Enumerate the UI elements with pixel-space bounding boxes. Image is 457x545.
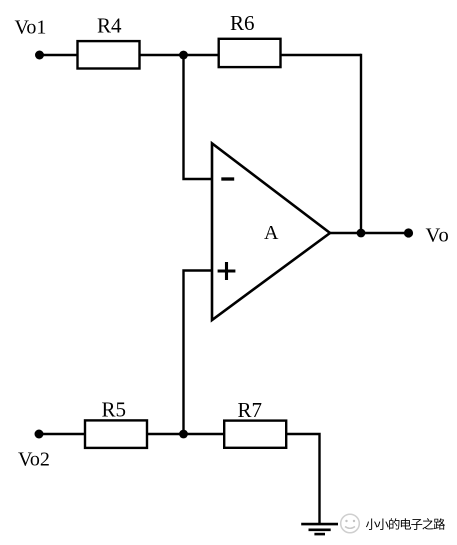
resistor R6 (219, 39, 281, 67)
wire non-inverting input stub (184, 271, 213, 435)
svg-text:Vo: Vo (426, 225, 450, 247)
resistor R5 (85, 420, 147, 448)
wire Vo1 to R4 (40, 54, 78, 56)
node Vo1 terminal (35, 51, 44, 60)
op-amp minus pin mark (221, 177, 234, 180)
svg-text:R4: R4 (97, 14, 122, 38)
svg-text:R5: R5 (102, 398, 127, 422)
resistor R4 (78, 41, 140, 68)
node output junction (357, 229, 366, 238)
op-amp U1 triangle (212, 143, 330, 320)
wire feedback vertical (360, 54, 362, 233)
wire R6 to feedback corner (282, 54, 362, 56)
wire R5 to node B (148, 433, 225, 435)
svg-text:Vo1: Vo1 (15, 17, 47, 39)
svg-text:R6: R6 (230, 11, 255, 35)
wire R7 to ground corner (287, 434, 320, 524)
node Vo terminal (404, 228, 413, 237)
svg-text:Vo2: Vo2 (18, 449, 50, 471)
node Vo2 terminal (35, 430, 44, 439)
wire op-amp output (330, 232, 409, 234)
svg-text:R7: R7 (238, 398, 263, 422)
watermark logo (341, 514, 360, 533)
svg-text:小小的电子之路: 小小的电子之路 (366, 516, 446, 531)
wire R4 to node A (141, 54, 219, 56)
resistor R7 (224, 421, 286, 448)
ground (301, 524, 338, 534)
node B junction (R5/R7/non-inverting) (179, 430, 188, 439)
wire node A down to inverting input (184, 55, 213, 179)
svg-text:A: A (264, 222, 279, 244)
op-amp plus pin mark (218, 269, 236, 272)
wire Vo2 to R5 (39, 433, 85, 435)
node A junction (R4/R6/inverting) (179, 51, 188, 60)
